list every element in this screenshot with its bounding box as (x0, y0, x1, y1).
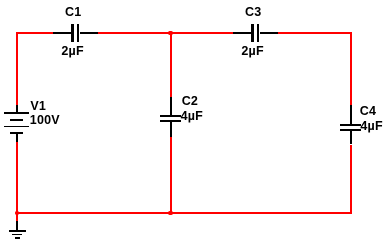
junction: node A (top middle) (168, 31, 172, 35)
capacitor C1 right lead (80, 32, 99, 34)
label C3 value 2uF (241, 45, 263, 58)
ground bar 3 (narrowest) (15, 237, 20, 239)
capacitor C1 left plate (71, 24, 73, 42)
capacitor C4 bottom plate (340, 129, 361, 131)
label C3 refdes (245, 6, 261, 19)
label C2 refdes (182, 95, 198, 108)
wire: top net, left segment (V1+ to C1 left lead) (17, 32, 53, 34)
wire: middle vertical, C2 bottom to bottom net (170, 137, 172, 214)
wire: left vertical, V1 top lead (16, 32, 18, 105)
junction: node B (bottom left, ground tap) (15, 211, 19, 215)
capacitor C2 top plate (160, 115, 181, 117)
battery V1 plate 4 (short, -) (10, 132, 23, 134)
battery V1 top lead (16, 105, 18, 113)
capacitor C3 left lead (233, 32, 252, 34)
battery V1 plate 3 (long, +) (4, 126, 29, 128)
label C4 value 4uF (360, 120, 382, 133)
label V1 value 100V (30, 114, 60, 127)
capacitor C1 right plate (77, 24, 79, 42)
capacitor C4 bottom lead (350, 131, 352, 145)
capacitor C3 right plate (257, 24, 259, 42)
junction: node C (bottom middle) (168, 211, 172, 215)
capacitor C2 bottom plate (160, 120, 181, 122)
wire: right vertical, C4 bottom to bottom net (350, 145, 352, 214)
wire: right vertical, top to C4 (350, 32, 352, 105)
label C2 value 4uF (181, 110, 203, 123)
capacitor C4 top plate (340, 124, 361, 126)
battery V1 bottom lead (16, 134, 18, 142)
wire: top net, right segment (C3 right lead to C4 top) (278, 32, 352, 34)
wire: middle vertical, node A to C2 top (170, 33, 172, 97)
label C4 refdes (360, 105, 376, 118)
ground lead wire (16, 221, 18, 230)
capacitor C4 top lead (350, 105, 352, 124)
battery V1 plate 2 (short, -) (10, 119, 23, 121)
wire: bottom net (ground rail) (17, 212, 352, 214)
capacitor C3 left plate (251, 24, 253, 42)
battery V1 plate 1 (long, +) (4, 112, 29, 114)
label C1 refdes (65, 6, 81, 19)
wire: left vertical, V1 bottom to ground node B (16, 142, 18, 222)
ground bar 1 (widest) (9, 230, 25, 232)
capacitor C1 left lead (53, 32, 72, 34)
capacitor C2 top lead (170, 97, 172, 115)
label C1 value 2uF (61, 45, 83, 58)
wire: top net, middle segment (C1 right lead to node A / C3 left lead) (98, 32, 233, 34)
capacitor C2 bottom lead (170, 122, 172, 137)
label V1 refdes (30, 100, 46, 113)
capacitor C3 right lead (260, 32, 279, 34)
ground bar 2 (middle) (12, 234, 22, 236)
